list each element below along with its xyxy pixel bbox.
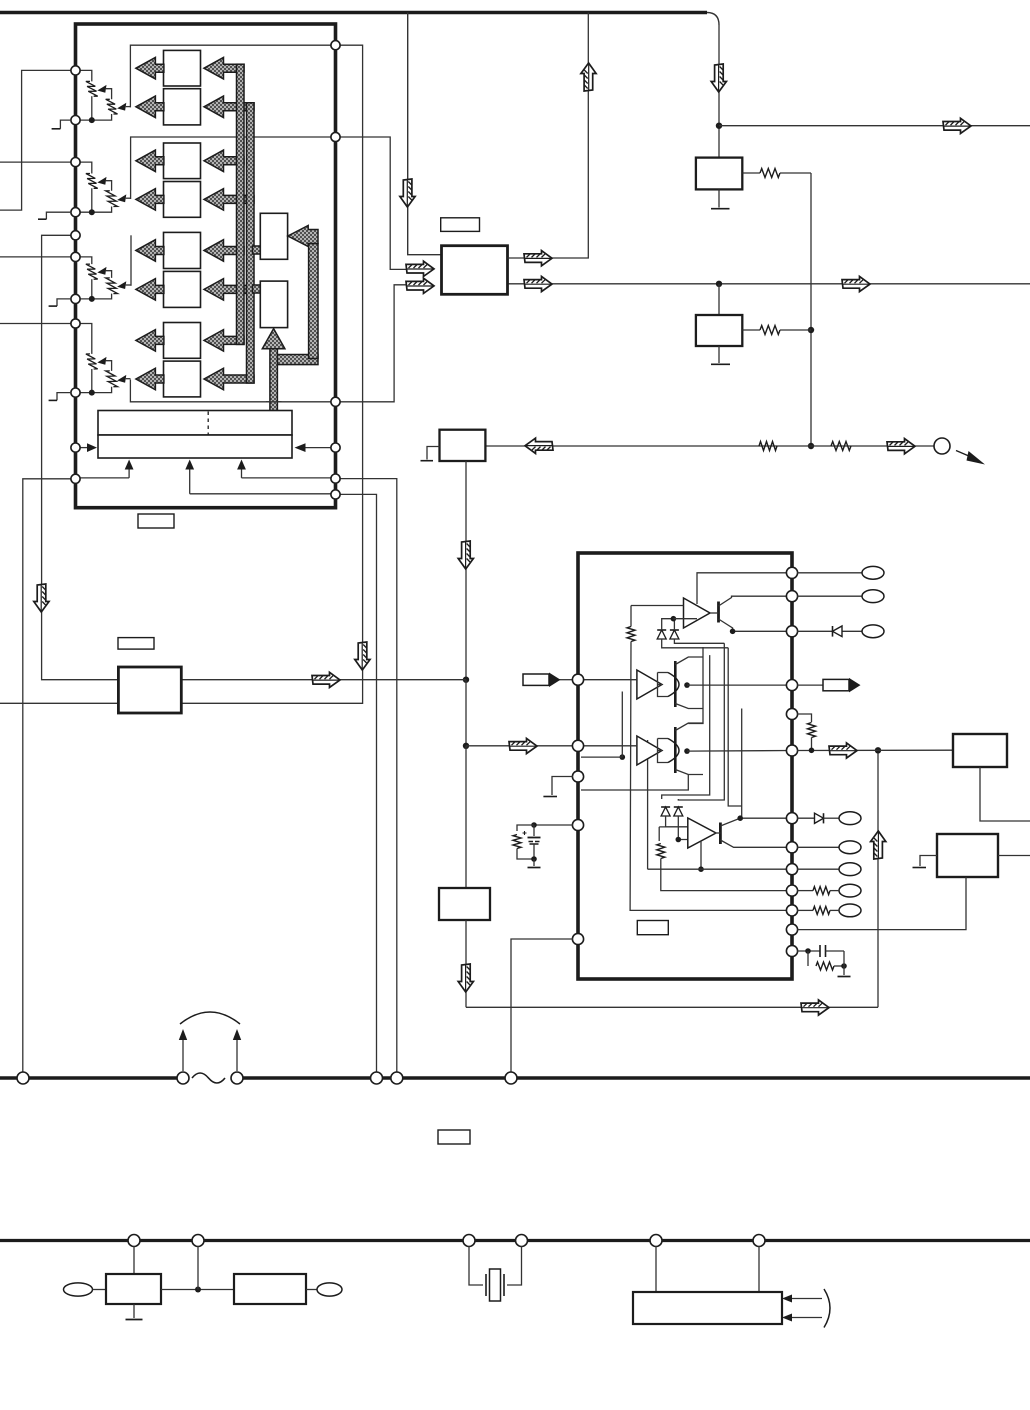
IC1 right pin y447: [331, 443, 340, 452]
stub pin299: [49, 299, 71, 306]
bus terminal x23: [17, 1072, 29, 1084]
test point TP6: [839, 863, 861, 876]
IC2 right pin y890: [786, 885, 797, 896]
wire U9 to U10: [161, 1289, 234, 1291]
resistor R1: [760, 169, 780, 178]
IC2 left pin y776: [572, 771, 583, 782]
bus terminal x396: [391, 1072, 403, 1084]
node B: [463, 743, 469, 749]
IC1 right pin y494: [331, 490, 340, 499]
bus terminal x511: [505, 1072, 517, 1084]
flow arrow down U4 output: [458, 541, 473, 569]
wire R1 to bus x811: [780, 172, 811, 174]
IC1 right pin y137: [331, 132, 340, 141]
switch SW1 contact: [934, 438, 950, 454]
grey bus 1 vertical: [237, 64, 245, 344]
RC at pin951: [797, 945, 851, 977]
flow arrow down U5 out: [458, 964, 473, 992]
wire vertical x811: [810, 173, 812, 446]
wire U7 down to right edge: [980, 767, 1030, 821]
box U11: [633, 1292, 782, 1324]
grey link register to BA/BB: [272, 226, 318, 365]
IC1 left pin y70: [71, 66, 80, 75]
register strobe arrow 3: [237, 460, 246, 478]
box U4: [440, 430, 486, 461]
flow arrow right on pin750 wire: [829, 743, 857, 758]
wire pin891: [797, 890, 813, 892]
wire diode bottoms: [662, 639, 729, 648]
diode D6: [815, 813, 840, 823]
wire top rail to U3 in1: [408, 13, 442, 255]
test point TP1: [862, 566, 884, 579]
resistor IC2 R-in: [627, 627, 635, 642]
IC2 left pin y825: [572, 819, 583, 830]
IC1 left pin y298: [71, 294, 80, 303]
wire node A to node B: [465, 680, 467, 746]
wire U3 out1 up to rail: [508, 13, 589, 259]
flex arrow left: [179, 1029, 187, 1071]
grey output arrow left of B3: [136, 150, 164, 172]
IC1 main chip outline: [76, 24, 336, 508]
wire IC2 internal bus x710: [662, 655, 710, 799]
diode D1: [657, 630, 666, 639]
wire U8 to pin930: [797, 877, 966, 930]
relay RL2: [696, 315, 742, 346]
wire A2 bottom tap: [700, 841, 702, 869]
resistor R5: [808, 723, 816, 738]
wire pin402 overpass riser: [266, 401, 282, 403]
wire RL2 top: [718, 284, 720, 315]
resistor R3: [759, 442, 777, 451]
flow arrow left into U4: [525, 438, 553, 453]
wire diode tops: [662, 619, 675, 630]
wire pin869 to TP6: [797, 868, 839, 870]
function block B3: [164, 143, 201, 179]
wire U3 out2 to right edge: [508, 283, 1030, 285]
wire rail to U11 left: [655, 1246, 657, 1292]
IC1 left pin y212: [71, 208, 80, 217]
test point TP8: [830, 904, 861, 917]
IC1 left pin y323: [71, 319, 80, 328]
potentiometer VR1: [76, 70, 131, 123]
IC2 right pin y910: [786, 905, 797, 916]
bus terminal x183: [177, 1072, 189, 1084]
wire U8 to right edge: [998, 855, 1030, 857]
grey bus arrow into B4: [204, 189, 254, 211]
switch SW1 lever arrow: [956, 451, 985, 465]
flow arrow right into U3 in3: [406, 278, 434, 293]
register block row2: [98, 435, 292, 458]
IC2 right pin y596: [786, 591, 797, 602]
wire IC1 pin402 to U3 in3: [340, 285, 406, 402]
potentiometer VR3: [76, 257, 131, 302]
grey output arrow left of B8: [136, 368, 164, 390]
wire IC2 internal riser x630: [630, 606, 632, 627]
label box U6: [118, 638, 154, 650]
wire G2 wiper to pin137: [131, 137, 340, 199]
diff cell CH-A: [637, 657, 792, 709]
grey bus 2 vertical: [247, 103, 255, 383]
grey riser from register to BB arrow: [262, 329, 285, 411]
input arrow 1 into U11: [782, 1295, 822, 1303]
grey bus arrow into B3: [204, 150, 244, 172]
ground U9: [126, 1304, 143, 1320]
ground bus left segment: [0, 1076, 188, 1079]
grey output arrow left of B4: [136, 189, 164, 211]
wire pin478L to strobe1: [76, 477, 130, 479]
flag source into IC2 pin679: [523, 673, 572, 688]
crystal X1: [469, 1246, 522, 1301]
wire IC1 pin70 to left edge: [0, 70, 71, 210]
register strobe arrow 1: [125, 460, 134, 478]
wire IC1 pin494 to bus: [340, 494, 377, 1071]
test point TP9: [64, 1283, 93, 1296]
rail terminal x198: [192, 1235, 204, 1247]
flow arrow right on out2 wire: [842, 276, 870, 291]
IC2 right pin y929: [786, 924, 797, 935]
node CH-B input tap: [581, 692, 625, 760]
wire pin910: [797, 909, 813, 911]
flow arrow down on U3 in1: [400, 179, 415, 207]
wire IC1 pin45 to left edge low: [0, 45, 363, 703]
bus flex squiggle: [192, 1073, 225, 1083]
register block row1: [98, 411, 292, 436]
amplifier A2 triangle: [688, 818, 716, 848]
wire D4 bottom: [678, 816, 688, 840]
flow arrow right on top output wire: [943, 118, 971, 133]
flow arrow up on U3 out1 riser: [581, 63, 596, 91]
flow arrow up on riser: [871, 831, 886, 859]
transistor Q2 base bar: [719, 823, 722, 845]
flex cable arc: [180, 1012, 240, 1024]
node A2 tap: [698, 866, 704, 872]
IC2 right pin y685: [786, 680, 797, 691]
box U9: [106, 1274, 161, 1304]
diode D4: [674, 807, 683, 816]
wire diode feed left: [659, 827, 688, 841]
function block B8: [164, 361, 201, 397]
IC2 right pin y869: [786, 864, 797, 875]
flow arrow right on U6 output: [312, 672, 340, 687]
function block B4: [164, 182, 201, 218]
wire pin714 pullup: [797, 714, 812, 722]
label box below bus: [438, 1130, 470, 1144]
transistor Q1 leads: [710, 596, 792, 631]
flow arrow right on sense line: [887, 439, 915, 454]
wire top supply rail: [0, 13, 719, 26]
stub pin212: [38, 212, 71, 219]
wire G4 wiper to pin402: [130, 380, 340, 402]
grey output arrow left of B7: [136, 330, 164, 352]
wire U4 to node A: [465, 461, 467, 680]
resistor IC2 R-fb: [657, 844, 665, 859]
node sense junction: [808, 443, 814, 449]
register data-in arrow left: [76, 443, 98, 452]
wire junction to right edge: [719, 125, 1030, 127]
transistor Q1 base bar: [717, 602, 720, 623]
IC2 right pin y818: [786, 813, 797, 824]
diode D2: [670, 630, 679, 639]
IC2 right pin y631: [786, 626, 797, 637]
box U5: [439, 888, 490, 920]
test point TP2: [862, 590, 884, 603]
grey bus arrow into B7: [204, 330, 244, 352]
wire pin818 diode: [797, 817, 814, 819]
wire R5 to y750: [811, 738, 813, 751]
wire IC2 pin679 to CH-A: [581, 679, 637, 681]
IC2 right pin y714: [786, 708, 797, 719]
grey output arrow left of B6: [136, 279, 164, 301]
rail terminal x656: [650, 1235, 662, 1247]
wire IC2 internal bus x703: [688, 647, 703, 724]
resistor R2: [760, 326, 780, 335]
IC2 main chip outline: [578, 553, 792, 979]
register strobe arrow 2: [185, 460, 194, 494]
ground RL2: [711, 346, 730, 364]
label box U3: [441, 218, 480, 232]
test point TP4: [839, 812, 861, 825]
box U7: [953, 734, 1007, 767]
potentiometer VR2: [76, 162, 131, 215]
potentiometer VR4: [76, 324, 131, 396]
IC1 left pin y392: [71, 388, 80, 397]
wire node B to U5: [465, 746, 467, 888]
wire junction up to rail: [197, 1246, 199, 1290]
function block BA: [260, 213, 287, 259]
register data-in arrow right: [295, 443, 341, 452]
wire IC2 pin746 to CH-B: [581, 745, 637, 747]
function block B2: [164, 89, 201, 125]
node A: [463, 677, 469, 683]
function block BB: [260, 281, 287, 328]
grey output arrow left of B1: [136, 57, 164, 78]
flow arrow down on U6 input: [34, 584, 49, 612]
wire IC2 riser x630 low: [630, 642, 792, 911]
diff cell CH-B: [637, 723, 792, 775]
wire pin750 to U7: [797, 749, 953, 751]
grey output arrow left of B2: [136, 96, 164, 118]
wire rail to U9: [133, 1246, 135, 1274]
rail terminal x521: [516, 1235, 528, 1247]
stub pin120: [52, 120, 71, 129]
node U9-U10 junction: [195, 1287, 201, 1293]
rail terminal x469: [463, 1235, 475, 1247]
IC2 left pin y745: [572, 740, 583, 751]
flow arrow down on RL1 drop: [711, 64, 726, 92]
register dotted divider: [207, 412, 209, 435]
wire IC2 internal bus x724: [678, 643, 724, 800]
wire R2 to bus: [780, 329, 811, 331]
test point TP7: [830, 884, 861, 897]
wire supply drop to RL1: [718, 25, 720, 158]
wire RL2 to R2: [742, 329, 760, 331]
wire pin573 to TP1: [797, 572, 862, 574]
function block B6: [164, 271, 201, 307]
wire IC1 pin162 to left edge: [0, 161, 71, 163]
wire pin494R to strobe2: [190, 493, 340, 495]
flow arrow right into U3 in2: [406, 261, 434, 276]
IC1 left pin y120: [71, 116, 80, 125]
diode D3: [661, 807, 670, 816]
bus terminal x237: [231, 1072, 243, 1084]
node supply junction: [716, 123, 722, 129]
input arrow 2 into U11: [782, 1314, 822, 1322]
wire IC1 pin478 to bus: [340, 479, 397, 1072]
amplifier A1 triangle: [684, 598, 711, 628]
flow arrow down on pin45 drop: [355, 642, 370, 670]
wire U5 down: [465, 920, 467, 1007]
wire IC1 pin323 to left edge: [0, 323, 71, 325]
crystal oscillator box U8: [937, 834, 998, 877]
wire IC2 internal bus x697: [697, 573, 792, 604]
ground stub IC2 pin776: [543, 777, 573, 797]
grey output arrow left of B5: [136, 240, 164, 262]
resistor R6: [813, 887, 830, 895]
resistor R7: [813, 906, 830, 914]
test point TP10: [317, 1283, 342, 1296]
stub pin392: [49, 393, 71, 401]
wire y869 run: [648, 868, 792, 870]
wire U10 to TP10: [306, 1289, 317, 1291]
IC1 left pin y478: [71, 474, 80, 483]
wire G3 wiper to U6 input: [42, 235, 119, 679]
box U10: [234, 1274, 306, 1304]
node D4 bottom: [676, 837, 682, 843]
grey bus arrow into B5: [204, 240, 244, 262]
wire R-fb down: [661, 859, 792, 891]
grey bus arrow into B8: [204, 368, 254, 390]
wire node B to IC2 pin746: [466, 745, 572, 747]
IC1 right pin y478: [331, 474, 340, 483]
wire rail to U11 right: [758, 1246, 760, 1292]
RC network at IC2 pin825: [513, 822, 573, 867]
node diode top: [671, 616, 677, 622]
ground U4: [421, 447, 440, 461]
box U3: [442, 246, 508, 295]
flag output at pin685: [797, 678, 861, 693]
ground bus right segment: [232, 1076, 1030, 1079]
function block B5: [164, 232, 201, 268]
IC1 left pin y256: [71, 252, 80, 261]
resistor R4: [831, 442, 851, 451]
IC2 left pin y679: [572, 674, 583, 685]
wire U5 out to riser: [466, 1006, 878, 1008]
test point TP5: [839, 841, 861, 854]
lower rail: [0, 1239, 1030, 1242]
IC1 left pin y162: [71, 158, 80, 167]
wire riser x878: [877, 750, 879, 1007]
bracket symbol: [824, 1289, 830, 1328]
IC1 right pin y45: [331, 41, 340, 50]
wire RL1 to R1: [742, 172, 760, 174]
diode D5: [833, 626, 843, 637]
flow arrow right on U3 out1: [524, 251, 552, 266]
ground stub U8: [913, 856, 938, 868]
wire IC1 pin137 to U3 in2: [340, 137, 406, 269]
node pin750 junction: [809, 748, 815, 754]
IC1 left pin y235: [71, 231, 80, 240]
flow arrow right on bottom link: [801, 1000, 829, 1015]
wire IC2 riser x647: [647, 740, 649, 869]
grey bus arrow into B2: [204, 96, 254, 118]
box U6: [118, 667, 181, 713]
wire pin847 to TP5: [797, 846, 839, 848]
flex arrow right: [233, 1029, 241, 1071]
node riser top: [875, 747, 881, 753]
node Q1 emitter: [730, 629, 736, 635]
node Q2 collector: [737, 815, 743, 821]
wire CH-B lower run: [581, 775, 688, 791]
IC2 right pin y572: [786, 567, 797, 578]
wire IC1 pin478L to bus: [23, 479, 71, 1072]
wire U6 output y680: [181, 679, 466, 681]
relay RL1: [696, 158, 742, 190]
node RL2 tap: [716, 281, 722, 287]
IC1 label box: [138, 514, 174, 528]
wire pin631 to TP3: [797, 630, 862, 632]
IC1 left pin y447: [71, 443, 80, 452]
transistor Q2 leads: [715, 818, 793, 847]
IC2 right pin y847: [786, 842, 797, 853]
test point TP3: [862, 625, 884, 638]
wire pin596 to TP2: [797, 595, 862, 597]
IC2 right pin y750: [786, 745, 797, 756]
IC2 right pin y951: [786, 945, 797, 956]
wire G3 wiper drop: [130, 235, 132, 285]
wire diode row upper: [673, 618, 697, 620]
grey bus arrow into B1: [204, 57, 244, 78]
rail terminal x134: [128, 1235, 140, 1247]
wire IC2 pin939 to bottom bus: [511, 939, 573, 1072]
function block B1: [164, 50, 201, 86]
node R2 junction: [808, 327, 814, 333]
grey stub bus2 to BA: [253, 246, 261, 254]
wire IC2 internal bus x728: [728, 648, 742, 806]
IC2 left pin y939: [572, 933, 583, 944]
wire sense line: [485, 445, 934, 447]
bus terminal x376: [371, 1072, 383, 1084]
wire G1 wiper to pin45: [130, 45, 340, 107]
function block B7: [164, 323, 201, 359]
wire pin478R to strobe3: [242, 477, 341, 479]
ground RL1: [711, 189, 730, 208]
wire A1 in left: [631, 605, 684, 607]
rail terminal x759: [753, 1235, 765, 1247]
wire IC2 internal bus x741: [741, 709, 743, 819]
grey stub bus2 to BB: [253, 285, 261, 293]
wire TP9 to U9: [93, 1289, 107, 1291]
IC2 label box: [637, 921, 668, 935]
grey bus arrow into B6: [204, 279, 254, 301]
IC1 right pin y401: [331, 397, 340, 406]
wire D3 bottom: [666, 816, 688, 827]
wire IC1 pin257 to left edge: [0, 256, 71, 258]
flow arrow right to IC2 pin746: [509, 738, 537, 753]
flow arrow right after U3 out2: [524, 276, 552, 291]
